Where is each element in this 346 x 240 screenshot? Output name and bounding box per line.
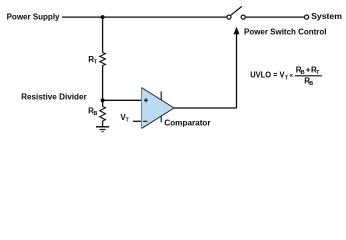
svg-text:B: B — [301, 70, 305, 76]
op-amp top edge — [142, 88, 175, 109]
wire top horizontal from Power Supply to switch — [62, 16, 227, 18]
svg-text:×: × — [289, 73, 293, 80]
wire vertical to RT — [102, 17, 104, 52]
switch S1 blade — [231, 6, 242, 15]
comparator bottom supply pin — [160, 116, 162, 122]
wire comparator output — [174, 107, 237, 109]
label RB — [88, 106, 97, 117]
svg-text:+: + — [306, 65, 311, 74]
node System open terminal — [305, 15, 309, 19]
svg-text:Power Switch Control: Power Switch Control — [244, 28, 327, 37]
comparator top supply pin — [160, 91, 162, 100]
wire switch to system — [245, 16, 304, 18]
svg-text:UVLO = V: UVLO = V — [250, 71, 285, 80]
ground — [96, 127, 109, 132]
comparator plus sign — [144, 98, 148, 102]
op-amp bottom edge — [142, 108, 175, 129]
comparator minus sign — [143, 120, 147, 122]
resistor RB — [100, 106, 106, 121]
resistor RT — [100, 53, 106, 66]
svg-text:Power Supply: Power Supply — [7, 12, 60, 21]
op-amp left edge — [141, 88, 143, 129]
wire divider node to comparator plus input — [103, 99, 142, 101]
wire output riser to switch control — [236, 34, 238, 109]
junction divider node — [101, 98, 105, 102]
junction top node — [101, 15, 105, 19]
arrowhead to power switch control — [234, 27, 240, 35]
svg-text:Resistive Divider: Resistive Divider — [21, 92, 87, 101]
wire RB to ground — [102, 121, 104, 127]
switch S1 right terminal — [241, 15, 245, 19]
svg-text:System: System — [311, 12, 342, 21]
svg-text:B: B — [94, 111, 98, 117]
wire RT to divider node — [102, 66, 104, 101]
wire divider node to RB — [102, 100, 104, 106]
label VT — [120, 113, 129, 124]
wire VT to comparator minus input — [133, 120, 142, 122]
label RT — [88, 55, 97, 66]
svg-text:B: B — [309, 81, 313, 87]
op-amp comparator U1 triangle — [142, 88, 175, 129]
svg-text:Comparator: Comparator — [164, 119, 210, 128]
switch S1 left terminal — [227, 15, 231, 19]
UVLO formula — [250, 65, 322, 87]
